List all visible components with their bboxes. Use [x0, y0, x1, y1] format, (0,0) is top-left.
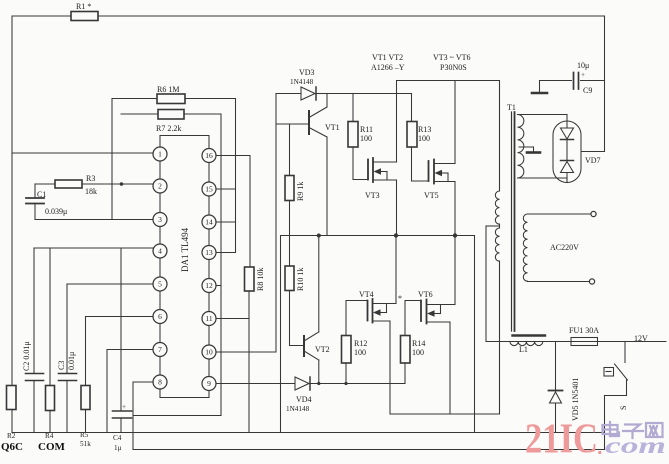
diode VD3 1N4148: [276, 68, 327, 100]
node pin 1: [153, 147, 167, 161]
node pin 4: [153, 244, 167, 258]
svg-text:C4: C4: [113, 434, 122, 442]
resistor R13 100: [407, 94, 431, 182]
transformer T1 feedback winding: [518, 115, 568, 183]
svg-text:L1: L1: [519, 345, 528, 354]
wire pin8 net: [133, 382, 153, 450]
transistor VT1: [276, 94, 340, 236]
wire top supply rail: [12, 15, 605, 17]
svg-text:R10 1k: R10 1k: [296, 268, 305, 291]
svg-text:VT4: VT4: [359, 290, 374, 299]
resistor R7: [121, 110, 221, 416]
wire pin7 net: [107, 350, 153, 433]
svg-text:1μ: 1μ: [114, 444, 122, 452]
label VT3-VT6 type: [433, 53, 471, 72]
svg-text:C1: C1: [37, 190, 46, 199]
wire pin11 to R8 bottom: [216, 318, 249, 320]
svg-text:5: 5: [158, 280, 162, 289]
wire pin1 to left rail: [12, 152, 153, 154]
node pin 16: [202, 149, 216, 163]
svg-text:1N4148: 1N4148: [290, 78, 314, 86]
watermark 21IC: [525, 417, 666, 463]
svg-text:VT3: VT3: [365, 191, 380, 200]
svg-text:51k: 51k: [80, 440, 91, 448]
svg-text:FU1 30A: FU1 30A: [569, 326, 599, 335]
resistor R1: [71, 2, 98, 21]
svg-text:6: 6: [158, 312, 162, 321]
wire pin10 to VD3 anode: [216, 94, 276, 353]
svg-text:R8 10k: R8 10k: [256, 268, 265, 291]
node pin 5: [153, 277, 167, 291]
svg-text:R9 1k: R9 1k: [296, 182, 305, 201]
svg-text:R3: R3: [86, 174, 95, 183]
resistor R3: [35, 174, 153, 196]
wire 12V rail: [486, 341, 666, 343]
svg-text:DA1 TL494: DA1 TL494: [180, 227, 190, 272]
node pin 2: [153, 179, 167, 193]
svg-text:VD7: VD7: [585, 156, 601, 165]
wire pin12 stub: [216, 285, 221, 287]
svg-text:R14: R14: [412, 339, 425, 348]
wire VD4 cathode rail: [310, 382, 405, 385]
node pin 11: [202, 312, 216, 326]
svg-text:2: 2: [158, 182, 162, 191]
resistor R9 1k: [285, 124, 305, 236]
svg-text:12V: 12V: [634, 334, 648, 343]
svg-text:16: 16: [205, 151, 213, 160]
ground bus A: [12, 432, 605, 434]
capacitor C1 0.039u: [26, 184, 67, 220]
svg-text:Q6C: Q6C: [1, 441, 23, 453]
ground symbol C9: [532, 81, 547, 94]
op-amp U1 DA1 TL494 body: [160, 136, 209, 398]
diode VD7 bidirectional zener: [553, 121, 605, 183]
ground symbol T1 tap: [527, 147, 540, 153]
svg-text:VT2: VT2: [315, 345, 330, 354]
svg-text:C2 0.01μ: C2 0.01μ: [22, 341, 31, 371]
transformer T1 secondary winding: [523, 211, 596, 284]
svg-text:13: 13: [205, 248, 213, 257]
diode VD4 1N4148: [286, 377, 312, 413]
svg-text:21IC: 21IC: [525, 417, 598, 463]
svg-text:+: +: [581, 71, 585, 79]
wire pin16 to R8: [216, 156, 250, 268]
switch S: [604, 342, 628, 450]
wire pin3 net: [35, 219, 153, 221]
node pin 12: [202, 279, 216, 293]
svg-text:11: 11: [205, 314, 212, 323]
fuse FU1 30A: [569, 326, 599, 346]
svg-text:18k: 18k: [85, 187, 97, 196]
svg-text:8: 8: [158, 378, 162, 387]
svg-text:VD4: VD4: [296, 395, 312, 404]
wire pin4 net: [34, 247, 153, 249]
node pin 9: [202, 377, 216, 391]
transistor VT4 mosfet: [359, 236, 396, 415]
svg-text:0.039μ: 0.039μ: [45, 207, 67, 216]
svg-text:C9: C9: [583, 86, 592, 95]
svg-text:R7 2.2k: R7 2.2k: [156, 124, 181, 133]
watermark dianziwang characters: [603, 422, 663, 438]
svg-text:3: 3: [158, 215, 162, 224]
capacitor C4 1u: [113, 248, 132, 452]
wire drain rail upper: [397, 81, 500, 192]
resistor R6: [112, 85, 236, 253]
svg-text:COM: COM: [38, 441, 66, 453]
node pin 8: [153, 375, 167, 389]
svg-text:0.01μ: 0.01μ: [67, 352, 76, 370]
svg-text:C3: C3: [57, 361, 66, 370]
svg-text:VT5: VT5: [424, 191, 439, 200]
svg-text:R2: R2: [7, 432, 16, 440]
diode VD5 1N5401: [549, 342, 581, 433]
wire pins 8-11-12 link: [133, 415, 221, 417]
node pin 10: [202, 345, 216, 359]
inductor L1: [510, 336, 545, 355]
svg-text:14: 14: [205, 218, 213, 227]
svg-text:VT6: VT6: [418, 290, 433, 299]
transistor VT3 mosfet: [365, 81, 397, 236]
resistor R14 100: [401, 301, 426, 384]
svg-text:S: S: [619, 406, 628, 410]
wire gate drive top rail: [327, 93, 412, 95]
svg-text:100: 100: [412, 348, 424, 357]
svg-text:100: 100: [360, 134, 372, 143]
svg-text:100: 100: [354, 348, 366, 357]
node pin 13: [202, 246, 216, 260]
svg-text:100: 100: [418, 134, 430, 143]
wire pin6 net: [86, 316, 154, 318]
ground mid bus: [281, 233, 475, 432]
transistor VT6 mosfet: [418, 236, 455, 415]
capacitor C3 0.01u: [57, 284, 77, 433]
wire pin5 net: [67, 283, 153, 285]
transistor VT5 mosfet: [424, 81, 455, 236]
svg-text:9: 9: [207, 379, 211, 388]
svg-text:1N4148: 1N4148: [286, 405, 310, 413]
svg-text:VT1 VT2: VT1 VT2: [372, 53, 403, 62]
node pin 15: [202, 182, 216, 196]
svg-text:T1: T1: [507, 103, 516, 112]
node pin 3: [153, 213, 167, 227]
transistor VT2: [290, 236, 330, 384]
svg-text:4: 4: [158, 247, 162, 256]
resistor R11 100: [348, 94, 373, 180]
svg-text:VT3 ~ VT6: VT3 ~ VT6: [433, 53, 471, 62]
capacitor C9 10u: [540, 61, 605, 95]
svg-text:1: 1: [158, 150, 162, 159]
wire pin15 bracket: [216, 188, 236, 190]
resistor R12 100: [342, 301, 368, 384]
svg-text:R6 1M: R6 1M: [157, 85, 179, 94]
transformer T1 primary winding: [486, 81, 500, 415]
svg-text:R13: R13: [418, 125, 431, 134]
svg-text:R1 *: R1 *: [76, 2, 91, 11]
wire left rail: [11, 16, 13, 385]
svg-text:VD5 1N5401: VD5 1N5401: [571, 378, 580, 421]
svg-text:15: 15: [205, 185, 213, 194]
wire right supply drop: [604, 16, 606, 152]
label VT1 VT2 type: [371, 53, 405, 72]
wire pin13 bracket: [216, 252, 236, 254]
svg-text:7: 7: [158, 345, 162, 354]
svg-text:VD3: VD3: [299, 68, 315, 77]
node pin 14: [202, 215, 216, 229]
resistor R5: [80, 317, 91, 449]
svg-text:R12: R12: [354, 339, 367, 348]
resistor R4: [38, 248, 66, 453]
resistor R8 10k: [245, 267, 266, 433]
svg-text:10μ: 10μ: [577, 61, 589, 70]
svg-text:*: *: [398, 294, 402, 303]
wire pin14 bracket: [216, 221, 236, 223]
svg-text:+: +: [122, 403, 126, 411]
node pin 7: [153, 343, 167, 357]
svg-text:R11: R11: [360, 125, 373, 134]
svg-text:AC220V: AC220V: [550, 243, 579, 252]
ground bus B: [133, 449, 605, 451]
svg-text:.: .: [597, 437, 603, 459]
svg-text:A1266 –Y: A1266 –Y: [371, 63, 405, 72]
capacitor C2 0.01u: [22, 248, 44, 433]
transformer T1 core: [507, 103, 516, 331]
svg-text:12: 12: [205, 281, 213, 290]
svg-text:VT1: VT1: [325, 123, 340, 132]
wire pin9 to VD4: [216, 383, 295, 385]
node pin 6: [153, 310, 167, 324]
svg-text:P30N0S: P30N0S: [440, 63, 467, 72]
svg-text:R4: R4: [45, 432, 54, 440]
wire drain rail lower: [390, 261, 500, 414]
resistor R10 1k: [285, 236, 305, 346]
resistor R2: [1, 386, 23, 454]
svg-text:10: 10: [205, 348, 213, 357]
